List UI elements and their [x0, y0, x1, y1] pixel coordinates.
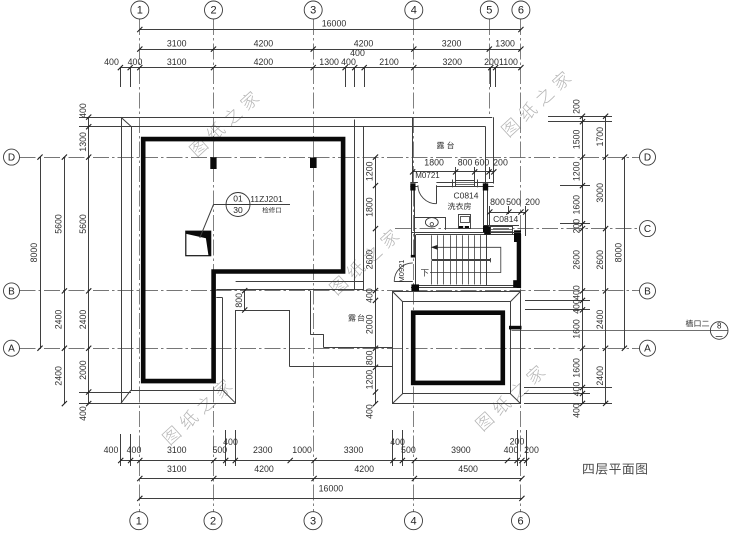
landing ext lines — [489, 206, 491, 225]
svg-text:4200: 4200 — [354, 38, 374, 48]
svg-text:2400: 2400 — [595, 366, 605, 386]
axis bubble right C — [640, 221, 656, 237]
roof edge mid verticals — [354, 120, 356, 291]
svg-text:1300: 1300 — [495, 38, 515, 48]
axis line A — [20, 348, 640, 350]
svg-text:400: 400 — [572, 382, 582, 397]
svg-text:2600: 2600 — [572, 250, 582, 270]
svg-text:2000: 2000 — [365, 314, 375, 334]
door M0721 — [436, 185, 438, 204]
svg-text:800: 800 — [490, 197, 505, 207]
svg-text:1200: 1200 — [365, 161, 375, 181]
left extension lines — [79, 117, 121, 119]
dim right 8000 — [624, 157, 626, 348]
axis bubble left D — [4, 149, 20, 165]
dim bottom 16000 — [140, 498, 522, 500]
svg-text:2: 2 — [210, 5, 216, 17]
svg-text:3100: 3100 — [167, 57, 187, 67]
svg-text:200: 200 — [510, 437, 525, 447]
dim left 8000 — [40, 157, 42, 348]
svg-text:5600: 5600 — [54, 214, 64, 234]
svg-text:4: 4 — [410, 515, 416, 527]
main building wall — [143, 139, 343, 381]
svg-text:8: 8 — [717, 322, 722, 331]
svg-text:400: 400 — [572, 299, 582, 314]
right extension lines — [548, 116, 612, 118]
svg-text:3100: 3100 — [167, 38, 187, 48]
dim mid col — [375, 157, 377, 404]
top extension lines — [120, 68, 122, 87]
axis bubble bottom 6 — [512, 512, 530, 530]
svg-text:4200: 4200 — [254, 57, 274, 67]
svg-text:1: 1 — [136, 515, 142, 527]
svg-text:4200: 4200 — [254, 464, 274, 474]
axis bubble top 1 — [131, 1, 149, 19]
svg-text:C0814: C0814 — [453, 191, 478, 201]
svg-text:200: 200 — [524, 445, 539, 455]
roof corner chamfers — [121, 117, 131, 126]
stair direction path — [430, 247, 501, 272]
svg-text:400: 400 — [572, 403, 582, 418]
svg-text:8000: 8000 — [614, 243, 624, 263]
svg-text:1300: 1300 — [78, 132, 88, 152]
svg-text:2400: 2400 — [595, 310, 605, 330]
label terrace mid — [348, 314, 364, 321]
svg-text:2100: 2100 — [379, 57, 399, 67]
bottom extension lines — [120, 434, 122, 466]
svg-text:400: 400 — [341, 57, 356, 67]
svg-text:4200: 4200 — [254, 38, 274, 48]
watermark 1 — [188, 89, 261, 158]
laundry ext lines — [455, 167, 457, 181]
axis line 3 — [313, 19, 315, 513]
dim laundry top — [413, 171, 494, 173]
dim right col2 — [605, 116, 607, 403]
svg-text:2300: 2300 — [253, 445, 273, 455]
svg-text:800: 800 — [458, 157, 473, 167]
room thick wall — [413, 313, 503, 383]
svg-text:2000: 2000 — [78, 360, 88, 380]
svg-text:M0721: M0721 — [415, 171, 440, 180]
dim left col3 — [88, 117, 90, 404]
laundry left wall — [411, 191, 413, 256]
svg-text:2400: 2400 — [54, 366, 64, 386]
laundry columns — [410, 183, 415, 190]
dim 800 step — [244, 291, 246, 310]
svg-text:1800: 1800 — [365, 197, 375, 217]
axis bubble bottom 2 — [204, 512, 222, 530]
svg-text:3900: 3900 — [451, 445, 471, 455]
svg-text:1800: 1800 — [424, 157, 444, 167]
svg-text:800: 800 — [234, 293, 244, 308]
svg-text:3100: 3100 — [167, 445, 187, 455]
roof outline inner — [131, 126, 133, 390]
svg-text:11ZJ201: 11ZJ201 — [250, 194, 283, 204]
axis bubble right B — [640, 283, 656, 299]
svg-text:4500: 4500 — [458, 464, 478, 474]
detail ref circle 8 — [512, 330, 711, 332]
svg-text:30: 30 — [233, 205, 243, 215]
svg-text:3300: 3300 — [344, 445, 364, 455]
axis bubble top 6 — [512, 1, 530, 19]
svg-text:400: 400 — [104, 445, 119, 455]
svg-text:200: 200 — [572, 99, 582, 114]
svg-text:500: 500 — [506, 197, 521, 207]
dim landing — [490, 212, 526, 214]
svg-text:600: 600 — [475, 157, 490, 167]
stair treads upper — [431, 235, 433, 259]
axis line C — [395, 228, 640, 230]
svg-text:400: 400 — [104, 57, 119, 67]
axis bubble bottom 1 — [130, 512, 148, 530]
svg-text:1600: 1600 — [572, 319, 582, 339]
svg-text:1000: 1000 — [292, 445, 312, 455]
svg-text:800: 800 — [365, 350, 375, 365]
axis line B — [20, 290, 640, 292]
svg-text:1200: 1200 — [572, 161, 582, 181]
svg-text:1200: 1200 — [365, 370, 375, 390]
svg-text:C: C — [644, 224, 651, 235]
svg-text:6: 6 — [517, 515, 523, 527]
svg-text:3100: 3100 — [167, 464, 187, 474]
svg-text:400: 400 — [572, 285, 582, 300]
svg-text:1500: 1500 — [572, 130, 582, 150]
dim top 16000 — [140, 29, 521, 31]
axis bubble bottom 4 — [405, 512, 423, 530]
axis line 6 — [520, 19, 522, 513]
svg-text:400: 400 — [127, 445, 142, 455]
svg-text:3: 3 — [310, 5, 316, 17]
svg-text:2400: 2400 — [54, 310, 64, 330]
svg-text:D: D — [644, 153, 651, 164]
svg-text:3200: 3200 — [442, 38, 462, 48]
axis bubble left B — [4, 283, 20, 299]
svg-text:4200: 4200 — [354, 464, 374, 474]
svg-text:1600: 1600 — [572, 195, 582, 215]
window C0814 top — [456, 181, 475, 187]
window C0814 landing — [491, 227, 513, 235]
dim top row3 — [120, 67, 521, 69]
axis line 1 — [139, 19, 141, 513]
terrace frame chamfers — [393, 292, 403, 302]
svg-text:1700: 1700 — [595, 127, 605, 147]
svg-text:200: 200 — [484, 57, 499, 67]
dim left col2 — [64, 157, 66, 404]
door M0921 — [394, 281, 413, 283]
stair columns — [484, 226, 490, 234]
axis bubble top 2 — [205, 1, 223, 19]
svg-text:1: 1 — [137, 5, 143, 17]
stair right wall — [517, 234, 521, 288]
svg-text:400: 400 — [128, 57, 143, 67]
svg-text:2400: 2400 — [78, 310, 88, 330]
svg-text:C0814: C0814 — [493, 214, 518, 224]
svg-text:2600: 2600 — [365, 250, 375, 270]
svg-text:2: 2 — [210, 515, 216, 527]
svg-text:01: 01 — [233, 194, 243, 204]
column on axis 3 — [310, 158, 317, 169]
svg-text:3: 3 — [310, 515, 316, 527]
svg-text:16000: 16000 — [322, 19, 347, 29]
svg-text:200: 200 — [525, 197, 540, 207]
axis bubble top 4 — [405, 1, 423, 19]
laundry right wall — [483, 191, 485, 226]
label terrace top — [437, 142, 454, 149]
svg-text:A: A — [644, 344, 651, 355]
svg-text:1100: 1100 — [499, 57, 518, 67]
svg-text:400: 400 — [504, 445, 519, 455]
terrace frame inner — [403, 302, 511, 394]
svg-text:4: 4 — [411, 5, 417, 17]
terrace frame outer — [393, 292, 521, 404]
svg-text:D: D — [8, 153, 15, 164]
axis bubble top 3 — [304, 1, 322, 19]
svg-text:200: 200 — [493, 157, 508, 167]
svg-text:1600: 1600 — [572, 358, 582, 378]
column on axis 2 — [210, 157, 216, 169]
svg-text:3000: 3000 — [595, 183, 605, 203]
axis line 2 — [213, 19, 215, 513]
svg-text:400: 400 — [365, 404, 375, 419]
axis line 5 — [489, 19, 491, 118]
dim bottom row2 — [140, 478, 522, 480]
svg-text:200: 200 — [572, 219, 582, 234]
axis bubble bottom 3 — [304, 512, 322, 530]
dim top row2 — [140, 49, 521, 51]
dim bottom row1 — [121, 460, 527, 462]
title — [583, 463, 647, 474]
counter — [415, 217, 446, 219]
terrace edge line B — [216, 289, 363, 291]
svg-text:400: 400 — [78, 103, 88, 118]
detail tick 8 — [509, 326, 522, 330]
axis bubble top 5 — [480, 1, 498, 19]
terrace step 800 — [236, 310, 290, 312]
laundry top wall — [410, 182, 418, 184]
stair enclosure — [416, 234, 515, 236]
detail circle 01/30 — [226, 193, 250, 217]
dim right col1 — [582, 116, 584, 403]
stair stringer — [432, 259, 491, 261]
axis bubble left A — [4, 340, 20, 356]
svg-text:B: B — [644, 286, 651, 297]
svg-text:B: B — [8, 286, 15, 297]
svg-text:400: 400 — [223, 437, 238, 447]
detail leader — [200, 205, 214, 238]
svg-text:400: 400 — [78, 406, 88, 421]
label laundry — [448, 202, 471, 209]
svg-text:3200: 3200 — [443, 57, 463, 67]
svg-text:16000: 16000 — [319, 484, 344, 494]
svg-text:A: A — [8, 344, 15, 355]
terrace step inner — [310, 291, 312, 334]
svg-text:5600: 5600 — [78, 214, 88, 234]
svg-text:8000: 8000 — [29, 243, 39, 263]
roof hatch symbol — [186, 231, 211, 256]
svg-text:6: 6 — [518, 5, 524, 17]
stair treads lower — [431, 261, 433, 285]
svg-text:2600: 2600 — [595, 250, 605, 270]
svg-text:1300: 1300 — [319, 57, 339, 67]
axis line 4 — [413, 19, 415, 513]
landing edge — [483, 225, 519, 227]
axis line D — [20, 157, 640, 159]
axis bubble right A — [640, 340, 656, 356]
svg-text:5: 5 — [486, 5, 492, 17]
washing machine — [459, 215, 471, 229]
svg-text:400: 400 — [365, 288, 375, 303]
roof outline outer — [121, 117, 123, 403]
toilet — [425, 218, 438, 227]
axis bubble right D — [640, 149, 656, 165]
svg-text:M0921: M0921 — [397, 260, 406, 283]
svg-text:400: 400 — [350, 48, 365, 58]
svg-text:500: 500 — [401, 445, 416, 455]
